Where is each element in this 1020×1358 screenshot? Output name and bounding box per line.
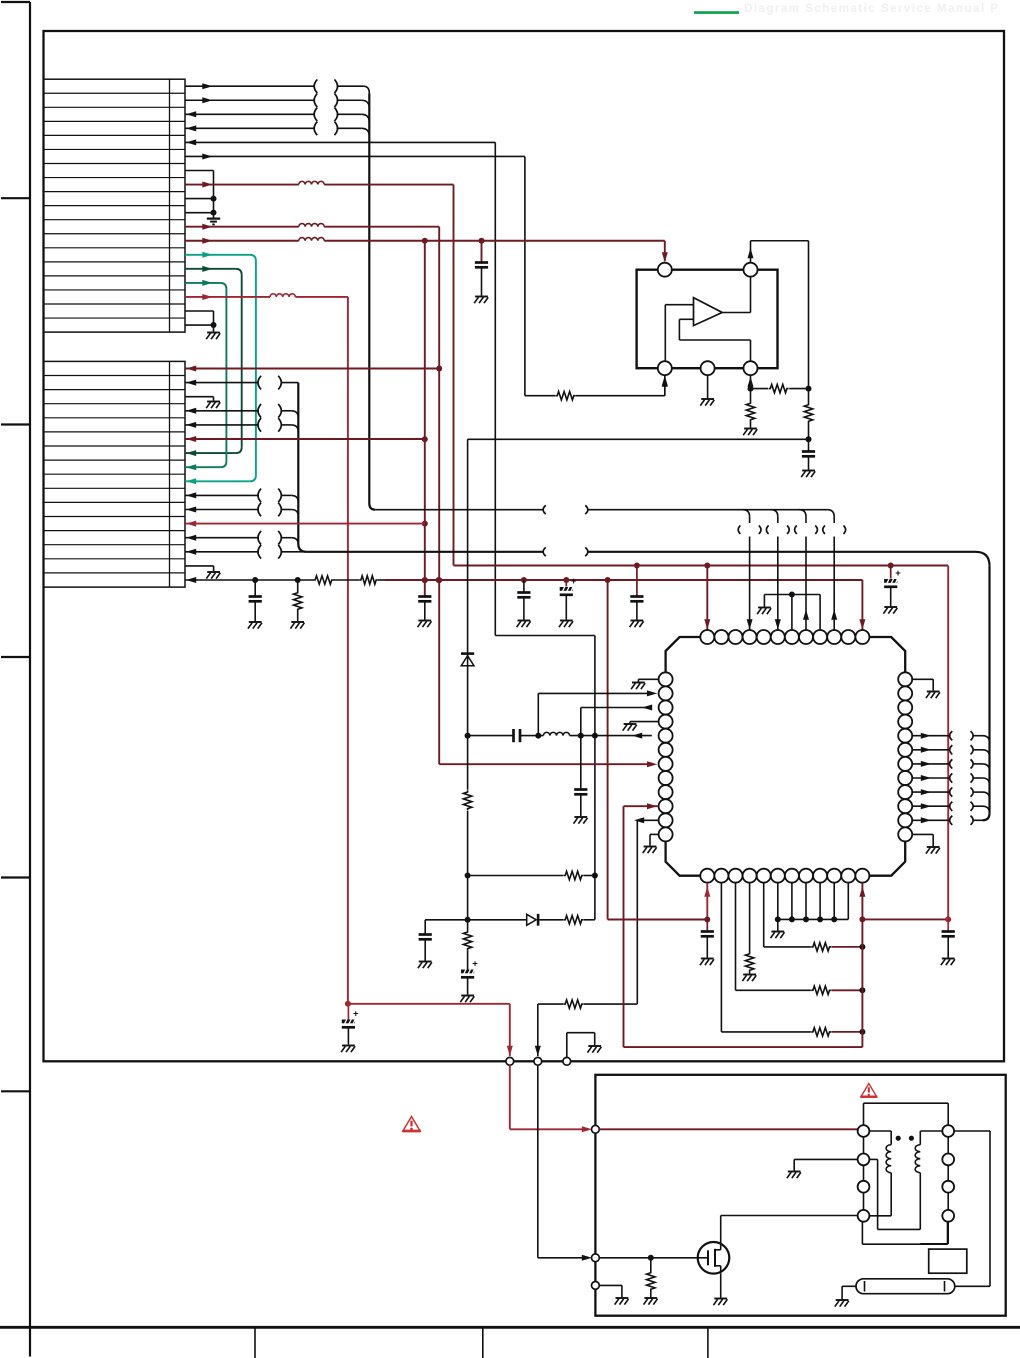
CN1 pin3 wire with ferrite bead FB3 <box>185 108 369 123</box>
IC1 pin B2 wire via resistor R19 <box>721 883 865 1036</box>
connector CN2 <box>44 361 186 587</box>
CN1 pin5 wire (to node V1) <box>185 139 595 635</box>
resonator: capacitor C14 and inductor L5 to IC pin L5 <box>468 729 652 742</box>
transformer pin ground <box>787 1159 858 1178</box>
capacitor C4 to ground <box>630 566 644 628</box>
IC1 pins T7,T9 ground tie bar <box>757 592 820 631</box>
IC1 right pins <box>898 672 912 841</box>
IC1 body (QFP) <box>666 637 906 876</box>
bus corner into fan line <box>369 504 375 510</box>
title block divider 1 <box>254 1327 256 1358</box>
resistor R3 to ground <box>290 580 304 629</box>
svg-text:+: + <box>353 1009 359 1020</box>
CN2 pin5 wire with ferrite bead FB7 <box>185 418 298 432</box>
CN2 pin12 wire (red) <box>185 521 425 527</box>
capacitor C18 to ground <box>941 919 955 965</box>
bus from CN2 (signal bundle) <box>298 383 306 552</box>
power wire P1 to transformer T1 pin1 (dark red) <box>599 1128 863 1130</box>
CN1 pins 7,9,10 earth ground <box>185 171 220 225</box>
dark red vertical x=607 (+B to lower bus) <box>607 580 609 920</box>
warning triangle (power block) <box>860 1084 877 1097</box>
component box (label) <box>929 1249 967 1273</box>
CN1 pin16 wire with inductor L4 (red net) <box>185 294 351 1007</box>
CN1 pin2 wire with ferrite bead FB2 <box>185 93 369 108</box>
op-amp IC2 <box>637 263 778 376</box>
green signal pair CN1 pin15 to CN2 pin8 <box>185 280 226 470</box>
CN2 pin10 wire with ferrite bead FB8 <box>185 489 298 503</box>
IC1 top pins <box>700 630 869 644</box>
CN2 pin3 ground stub <box>185 397 220 408</box>
svg-text:+: + <box>472 959 478 970</box>
resistor R15 and electrolytic C13 to ground <box>460 930 478 1002</box>
transformer pin4 wire <box>920 1222 948 1244</box>
IC1 pin B5 wire via resistor R22 <box>764 883 866 951</box>
faint header text <box>744 3 1000 15</box>
wire to IC pin L2 <box>538 690 657 735</box>
bus from CN1 pins 1-4 <box>368 93 370 503</box>
IC1 bottom pins <box>700 869 869 883</box>
CN2 pin2 wire with ferrite bead FB5 <box>185 376 298 390</box>
+B bus (dark red) to IC pin T12 <box>385 577 865 632</box>
Q1 drain wire to transformer <box>721 1216 864 1243</box>
IC1 pin B4 resistor R21 to ground <box>742 883 756 981</box>
IC1 pin L1 ground stub <box>631 679 659 689</box>
IC1 pin L12 ground stub <box>643 834 659 853</box>
wire +A to IC pin T1 <box>704 566 710 632</box>
net y=439.3 with vertical x=467.6 and resistor R24 <box>463 439 808 930</box>
signal bus y=551.8 to right-side bead column <box>306 547 989 820</box>
CN2 pin16 wire with resistors R1,R2 <box>185 576 385 584</box>
op-amp feedback resistors R12,R13 <box>743 375 811 435</box>
terminal J3 with ground loop <box>563 1033 602 1066</box>
CN1 pin8 wire with inductor L1 (dark red to +A bus) <box>185 181 454 565</box>
IC1 pin R12 ground stub <box>912 834 940 853</box>
vertical net V1 x=594.9 <box>592 636 598 920</box>
terminal J2 <box>534 1057 542 1065</box>
IC1 pin B3 wire via resistor R20 <box>736 883 866 995</box>
IC1 pin R8 wire with ferrite bead <box>912 773 989 785</box>
power terminal P2 <box>592 1254 600 1262</box>
red net to terminal J1 <box>348 1004 513 1056</box>
capacitor C11 to ground from CN1 pin12 line <box>474 241 488 303</box>
capacitor C1 to ground <box>248 580 262 629</box>
IC1 pin R1 ground stub <box>912 679 940 698</box>
IC1 pin R6 wire with ferrite bead <box>912 745 989 757</box>
electrolytic capacitor C5 to ground <box>883 566 901 614</box>
CN2 pin6 wire (dark red) <box>185 436 425 442</box>
power terminal P3 with ground <box>592 1282 629 1305</box>
Q1 source to ground <box>713 1274 727 1305</box>
IC1 pin B1 supply with capacitor C17 (dark red bus west) <box>608 883 714 965</box>
title block top line <box>0 1326 1020 1329</box>
gate wire with resistor R23 to ground <box>599 1255 698 1305</box>
electrolytic capacitor C3 to ground <box>559 576 577 627</box>
terminal J1 <box>506 1057 514 1065</box>
IC1 pin L4 ground stub <box>623 722 659 731</box>
electrolytic capacitor C20 on red net <box>341 1004 359 1052</box>
CN1 pin4 wire with ferrite bead FB4 <box>185 122 369 137</box>
IC pin L3 wire with capacitor C15 to ground <box>574 705 653 824</box>
CN1 pin6 wire via resistor R11 to op-amp <box>185 153 668 399</box>
border tick 3 <box>1 423 30 425</box>
MOSFET Q1 <box>698 1242 730 1274</box>
CN1 pin12 wire with inductor L3 (dark red to op-amp pin) <box>185 238 668 263</box>
IC1 pin L10 supply loop (dark red) <box>624 803 863 1047</box>
CN2 pin13 wire with ferrite bead FB10 <box>185 531 298 545</box>
IC1 pin R10 wire with ferrite bead <box>912 802 989 814</box>
svg-text:Diagram Schematic Service Manu: Diagram Schematic Service Manual P <box>744 3 1000 15</box>
capacitor C2 to ground <box>517 580 531 627</box>
CN1 pin11 wire with inductor L2 (dark red, to IC pin L7) <box>185 224 657 768</box>
resistor R16 row <box>468 871 595 879</box>
IC1 pin R11 wire with ferrite bead <box>912 816 982 825</box>
svg-text:+: + <box>895 568 901 579</box>
main schematic frame <box>44 31 1005 1061</box>
border tick 5 <box>1 876 30 878</box>
CN1 pin1 wire with ferrite bead FB1 <box>185 79 369 93</box>
resistor R14 and capacitor C12 to ground <box>801 389 815 478</box>
border tick 2 <box>1 197 30 199</box>
CN2 pin1 wire (dark red) <box>185 366 439 372</box>
IC1 pin R5 wire with ferrite bead <box>912 731 989 743</box>
net vertical x=424.8 with capacitor C10 to ground <box>418 241 432 627</box>
green link underline <box>694 11 739 14</box>
IC1 pins B6-B11 ground tie bar <box>771 883 849 938</box>
zener diode D1 <box>461 652 474 666</box>
diode D2 and resistor R17 row with capacitor C16 <box>418 914 595 968</box>
CN1 pins 17,18 ground stub <box>185 311 220 339</box>
warning triangle (page) <box>402 1117 420 1131</box>
op-amp output wire to feedback node <box>748 241 809 389</box>
power supply block frame <box>595 1075 1005 1316</box>
op-amp inverting input pin wire <box>662 375 668 396</box>
transformer T1 <box>858 1103 955 1244</box>
IC1 pin R7 wire with ferrite bead <box>912 759 989 771</box>
teal signal pair CN1 pin13 to CN2 pin9 <box>185 252 256 484</box>
secondary output wire <box>954 1131 990 1286</box>
CN2 pin14 wire with ferrite bead FB11 <box>185 545 306 559</box>
CN2 pin11 wire with ferrite bead FB9 <box>185 503 298 517</box>
IC1 pin R9 wire with ferrite bead <box>912 788 989 800</box>
IC1 pin B12 supply vertical (dark red bus east) <box>859 883 951 1047</box>
connector CN1 <box>44 79 186 332</box>
op-amp ground pin <box>700 375 714 405</box>
CN2 pin4 wire with ferrite bead FB6 <box>185 404 298 418</box>
IC1 pin L11 wire via resistor R18 to terminal J2 <box>535 817 659 1056</box>
black feed wire J2 to power block <box>538 1065 592 1261</box>
title block divider 2 <box>482 1327 484 1358</box>
svg-text:+: + <box>571 576 577 587</box>
border tick 4 <box>1 656 30 658</box>
power terminal P1 <box>592 1125 600 1133</box>
page left border <box>29 2 31 1357</box>
+A bus (dark red) y=565.5 with vertical x=948 <box>454 563 949 920</box>
CN2 pin15 ground stub <box>185 566 220 579</box>
border tick 6 <box>1 1090 30 1092</box>
dark green signal pair CN1 pin14 to CN2 pin7 <box>185 266 242 456</box>
fan line with ferrite beads FB12-FB15 to IC pins T4,T6,T8,T10 <box>375 505 845 631</box>
title block divider 3 <box>707 1327 709 1358</box>
IC1 left pins <box>659 672 673 841</box>
lamp FL1 <box>835 1279 990 1307</box>
border tick top <box>1 1 30 3</box>
red feed wire J1 to power block <box>510 1065 592 1132</box>
